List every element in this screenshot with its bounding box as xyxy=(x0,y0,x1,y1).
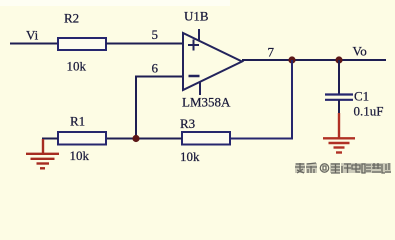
svg-text:10k: 10k xyxy=(180,149,200,164)
wire C1 top lead xyxy=(338,60,340,94)
wire ground to R1 xyxy=(43,139,58,142)
resistor R2 xyxy=(58,38,106,50)
junction output feedback xyxy=(288,56,295,63)
char 条 xyxy=(306,163,317,173)
power stub top xyxy=(198,29,200,42)
svg-text:6: 6 xyxy=(152,61,159,76)
op-amp plus symbol xyxy=(188,40,199,51)
svg-text:Vi: Vi xyxy=(26,28,39,43)
watermark 头条 logo text xyxy=(295,163,391,173)
svg-text:LM358A: LM358A xyxy=(182,95,231,110)
junction R1 R3 feedback xyxy=(132,135,139,142)
power stub bottom xyxy=(199,82,201,96)
char 础 xyxy=(382,163,391,173)
capacitor C1 xyxy=(325,95,353,100)
ground left xyxy=(26,139,59,168)
char 头 xyxy=(295,163,305,173)
svg-text:U1B: U1B xyxy=(184,9,209,24)
char 基 xyxy=(372,163,381,172)
wire feedback from output to R3 xyxy=(230,60,292,139)
svg-text:10k: 10k xyxy=(70,148,90,163)
wire R1 to junction to R3 xyxy=(106,138,182,140)
char 硬 xyxy=(331,164,340,173)
char 电 xyxy=(352,163,360,172)
svg-text:0.1uF: 0.1uF xyxy=(354,104,384,119)
op-amp minus symbol xyxy=(189,75,200,78)
wire R2 to op-amp pin 5 xyxy=(106,43,183,45)
svg-text:R2: R2 xyxy=(64,11,79,26)
wire Vi input xyxy=(10,43,59,45)
icon @ xyxy=(320,164,328,172)
wire feedback riser to pin 6 xyxy=(136,77,183,139)
svg-text:C1: C1 xyxy=(354,89,369,104)
junction C1 xyxy=(335,56,342,63)
resistor R3 xyxy=(182,132,230,145)
top edge light band xyxy=(0,0,230,6)
svg-text:5: 5 xyxy=(152,27,159,42)
char 路 xyxy=(362,164,371,173)
resistor R1 xyxy=(58,132,106,145)
svg-text:Vo: Vo xyxy=(353,44,367,59)
char 件 xyxy=(342,164,351,173)
svg-text:10k: 10k xyxy=(67,59,87,74)
svg-text:R1: R1 xyxy=(70,114,85,129)
svg-text:7: 7 xyxy=(268,45,275,60)
ground right xyxy=(323,113,355,153)
svg-text:R3: R3 xyxy=(180,116,195,131)
wire output xyxy=(242,59,386,61)
wire C1 bottom lead xyxy=(338,100,340,114)
op-amp U1B triangle xyxy=(183,33,242,90)
